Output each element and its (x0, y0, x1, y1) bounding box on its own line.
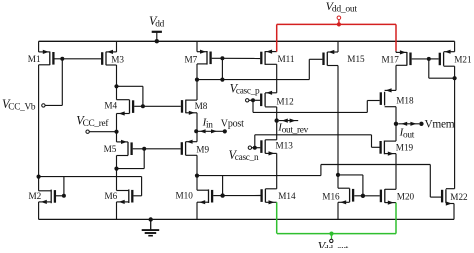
wire red drop to M17 source (395, 24, 397, 52)
transistor M14 (262, 189, 296, 205)
wire bus to M22 gate (430, 196, 441, 198)
wire M3 drain down (116, 65, 118, 100)
wire Iout_rev double arrow (279, 119, 298, 123)
svg-text:M14: M14 (278, 191, 296, 201)
wire M10 drain bus (197, 165, 430, 198)
transistor M18 (381, 88, 414, 106)
svg-text:M12: M12 (276, 96, 294, 106)
wire M8 source down (196, 113, 198, 142)
wire M10 gate lead (213, 195, 222, 197)
svg-text:dd_out: dd_out (324, 245, 349, 248)
wire M1 drain to M2 drain (38, 65, 40, 191)
node Iout_rev label (277, 121, 308, 135)
wire M7 source to rail (196, 41, 198, 51)
svg-text:M6: M6 (105, 191, 118, 201)
svg-text:M3: M3 (111, 55, 124, 65)
transistor M17 (382, 50, 411, 65)
node M7 drain junction (195, 78, 199, 82)
wire VCC_ref to node (89, 131, 116, 133)
transistor M6 (105, 189, 133, 204)
node Iout label (399, 126, 415, 140)
transistor M2 (29, 190, 55, 204)
svg-text:M2: M2 (29, 191, 42, 201)
svg-text:casc_p: casc_p (236, 87, 260, 97)
svg-text:M19: M19 (396, 142, 414, 152)
svg-text:Vmem: Vmem (425, 118, 455, 130)
svg-text:M17: M17 (382, 55, 400, 65)
wire M20 source green drop (395, 203, 397, 234)
wire M2 source to ground rail (38, 202, 40, 220)
wire M16 source to ground rail (337, 202, 339, 219)
wire M17 gate lead (412, 58, 429, 60)
node Vmem label (425, 118, 455, 130)
node Vcasc_p terminal (230, 81, 260, 102)
transistor M20 (381, 189, 415, 205)
wire M10 source to ground rail (196, 202, 198, 219)
svg-text:M20: M20 (397, 191, 415, 201)
wire M19 source to M20 drain (395, 154, 397, 190)
wire M7 gate lead (212, 57, 223, 59)
transistor M15 (324, 50, 366, 66)
svg-text:M7: M7 (185, 55, 198, 65)
wire M18 drain to M19 drain (395, 107, 397, 141)
node M9-M10 drain junction (195, 174, 199, 178)
transistor M9 (182, 140, 210, 156)
node M5 gate junction (142, 147, 146, 151)
svg-text:dd: dd (155, 20, 164, 30)
wire M14 source green drop (276, 202, 278, 233)
transistor M8 (182, 100, 208, 115)
node Iout_rev junction (275, 118, 279, 122)
wire VCC_Vb to M1 gate (45, 59, 62, 106)
wire M6 gate drop (141, 177, 143, 196)
node M16 gate junction (361, 194, 365, 198)
wire M1 gate to M3 gate (62, 58, 101, 60)
ground symbol (142, 217, 160, 235)
svg-text:M15: M15 (347, 54, 365, 64)
svg-text:M22: M22 (450, 192, 468, 202)
transistor M1 (28, 50, 54, 65)
transistor M21 (440, 50, 472, 67)
wire M3 source to rail (116, 41, 118, 52)
wire M22 source to ground rail (453, 204, 455, 220)
svg-text:M11: M11 (278, 54, 295, 64)
transistor M5 (104, 140, 132, 156)
node Vss_out terminal (318, 232, 349, 253)
wire red drop to M11 source (276, 24, 278, 51)
node M21 drain junction (453, 76, 457, 80)
wire M1 source to rail (38, 41, 40, 52)
node Vcasc_p junction (251, 98, 255, 102)
node M7 loop junction (220, 78, 224, 82)
wire M2 gate drop (63, 177, 65, 196)
transistor M16 (322, 188, 353, 204)
wire M5 drain down (116, 156, 118, 191)
transistor M13 (261, 140, 293, 156)
transistor M10 (176, 189, 213, 204)
wire M1 gate lead (55, 58, 63, 60)
svg-text:M1: M1 (28, 54, 41, 64)
svg-text:dd_out: dd_out (332, 3, 357, 14)
node M1 gate junction (60, 57, 64, 61)
wire M7 drain to M8 drain (196, 64, 198, 100)
svg-text:M16: M16 (322, 191, 340, 201)
wire M2-M6 gate bus (39, 176, 142, 178)
node VCC_Vb terminal (2, 97, 45, 112)
wire M7 diode loop (197, 58, 222, 79)
wire M17 drain to M18 source (395, 65, 397, 90)
ground bottom rail (39, 218, 454, 220)
svg-text:CC_ref: CC_ref (83, 118, 110, 129)
transistor M7 (185, 50, 211, 65)
node Vcasc_n terminal (229, 146, 259, 163)
wire M15 source to rail (337, 41, 339, 52)
wire M6 gate lead (134, 195, 142, 197)
node M3 drain junction (114, 84, 118, 88)
wire M21 source to rail (454, 41, 456, 51)
transistor M11 (261, 50, 295, 65)
wire M5 diode loop (117, 149, 145, 169)
wire M7 node to M15 gate (222, 59, 322, 79)
node VCC_ref terminal (76, 114, 109, 134)
node Iin Vpost labels (202, 116, 245, 130)
node M17 gate junction (427, 57, 431, 61)
svg-text:M8: M8 (195, 101, 208, 111)
wire Vdd_out red rail (277, 23, 396, 25)
node Vcasc_n junction (253, 146, 257, 150)
svg-text:M4: M4 (104, 101, 117, 111)
wire M10 gate to M14 gate (223, 195, 261, 197)
wire M5 gate lead (133, 148, 145, 150)
wire Vcasc_n to M13 gate (252, 147, 261, 149)
node M2 gate junction (62, 194, 66, 198)
svg-text:M13: M13 (276, 141, 294, 151)
transistor M12 (261, 91, 294, 107)
wire M6 source to ground rail (116, 202, 118, 220)
wire M9 drain down (196, 155, 198, 190)
transistor M3 (102, 50, 124, 65)
wire M4 gate lead (134, 105, 143, 107)
svg-text:M10: M10 (176, 191, 194, 201)
svg-text:CC_Vb: CC_Vb (8, 102, 36, 112)
node Iin-Vpost junction (194, 129, 198, 133)
wire M7 gate to M11 gate (222, 57, 260, 59)
wire M21 diode loop (429, 59, 455, 78)
wire Vcasc_n to M19 gate (255, 135, 380, 148)
svg-text:casc_n: casc_n (235, 153, 259, 163)
node VCC_ref junction (114, 130, 118, 134)
svg-text:out_rev: out_rev (282, 125, 309, 135)
wire M5 gate to M9 gate (144, 148, 180, 150)
node M1-M2 drain junction (37, 175, 41, 179)
wire Vmem double arrow (398, 122, 423, 126)
wire M2 gate lead (56, 195, 64, 197)
wire M13 source to M14 drain (276, 153, 278, 188)
node Vmem junction (394, 122, 398, 126)
wire M21 drain to M22 drain (453, 66, 456, 189)
svg-text:Vpost: Vpost (221, 118, 244, 129)
wire M10 gate riser (222, 176, 224, 196)
transistor M22 (442, 189, 468, 206)
power Vdd symbol (149, 14, 165, 43)
transistor M4 (104, 100, 133, 116)
wire M15 drain to M16 drain (337, 66, 339, 189)
transistor M19 (381, 141, 414, 156)
wire M4 gate to M8 gate (143, 105, 181, 107)
wire Vss_out green rail (277, 233, 396, 235)
svg-text:M21: M21 (454, 55, 472, 65)
node M15-M16 drain junction (336, 173, 340, 177)
node M7 gate junction (220, 56, 224, 60)
svg-text:in: in (206, 120, 213, 130)
svg-text:M18: M18 (396, 96, 414, 106)
wire Vcasc_p to M18 gate (253, 100, 380, 112)
wire Vcasc_p to M12 gate (249, 99, 260, 101)
svg-text:M5: M5 (104, 144, 117, 154)
wire M16 gate lead (354, 195, 363, 197)
wire M16 diode loop (338, 175, 363, 196)
wire M12 drain to M13 drain (276, 107, 278, 140)
wire M4 drain to M5 source (116, 114, 118, 142)
wire Iin double arrow (196, 129, 227, 133)
wire M4 diode loop (117, 86, 143, 106)
node M10 gate junction (220, 193, 224, 197)
wire M11 drain to M12 source (276, 64, 278, 93)
wire Vdd top rail (39, 40, 455, 42)
node M4 gate junction (141, 104, 145, 108)
node M5 drain junction (114, 167, 118, 171)
svg-text:M9: M9 (196, 145, 209, 155)
wire M17 gate to M21 gate (429, 58, 439, 60)
node Vdd_out terminal (326, 0, 358, 27)
svg-text:out: out (403, 130, 415, 140)
wire M16 gate to M20 gate (363, 195, 380, 197)
